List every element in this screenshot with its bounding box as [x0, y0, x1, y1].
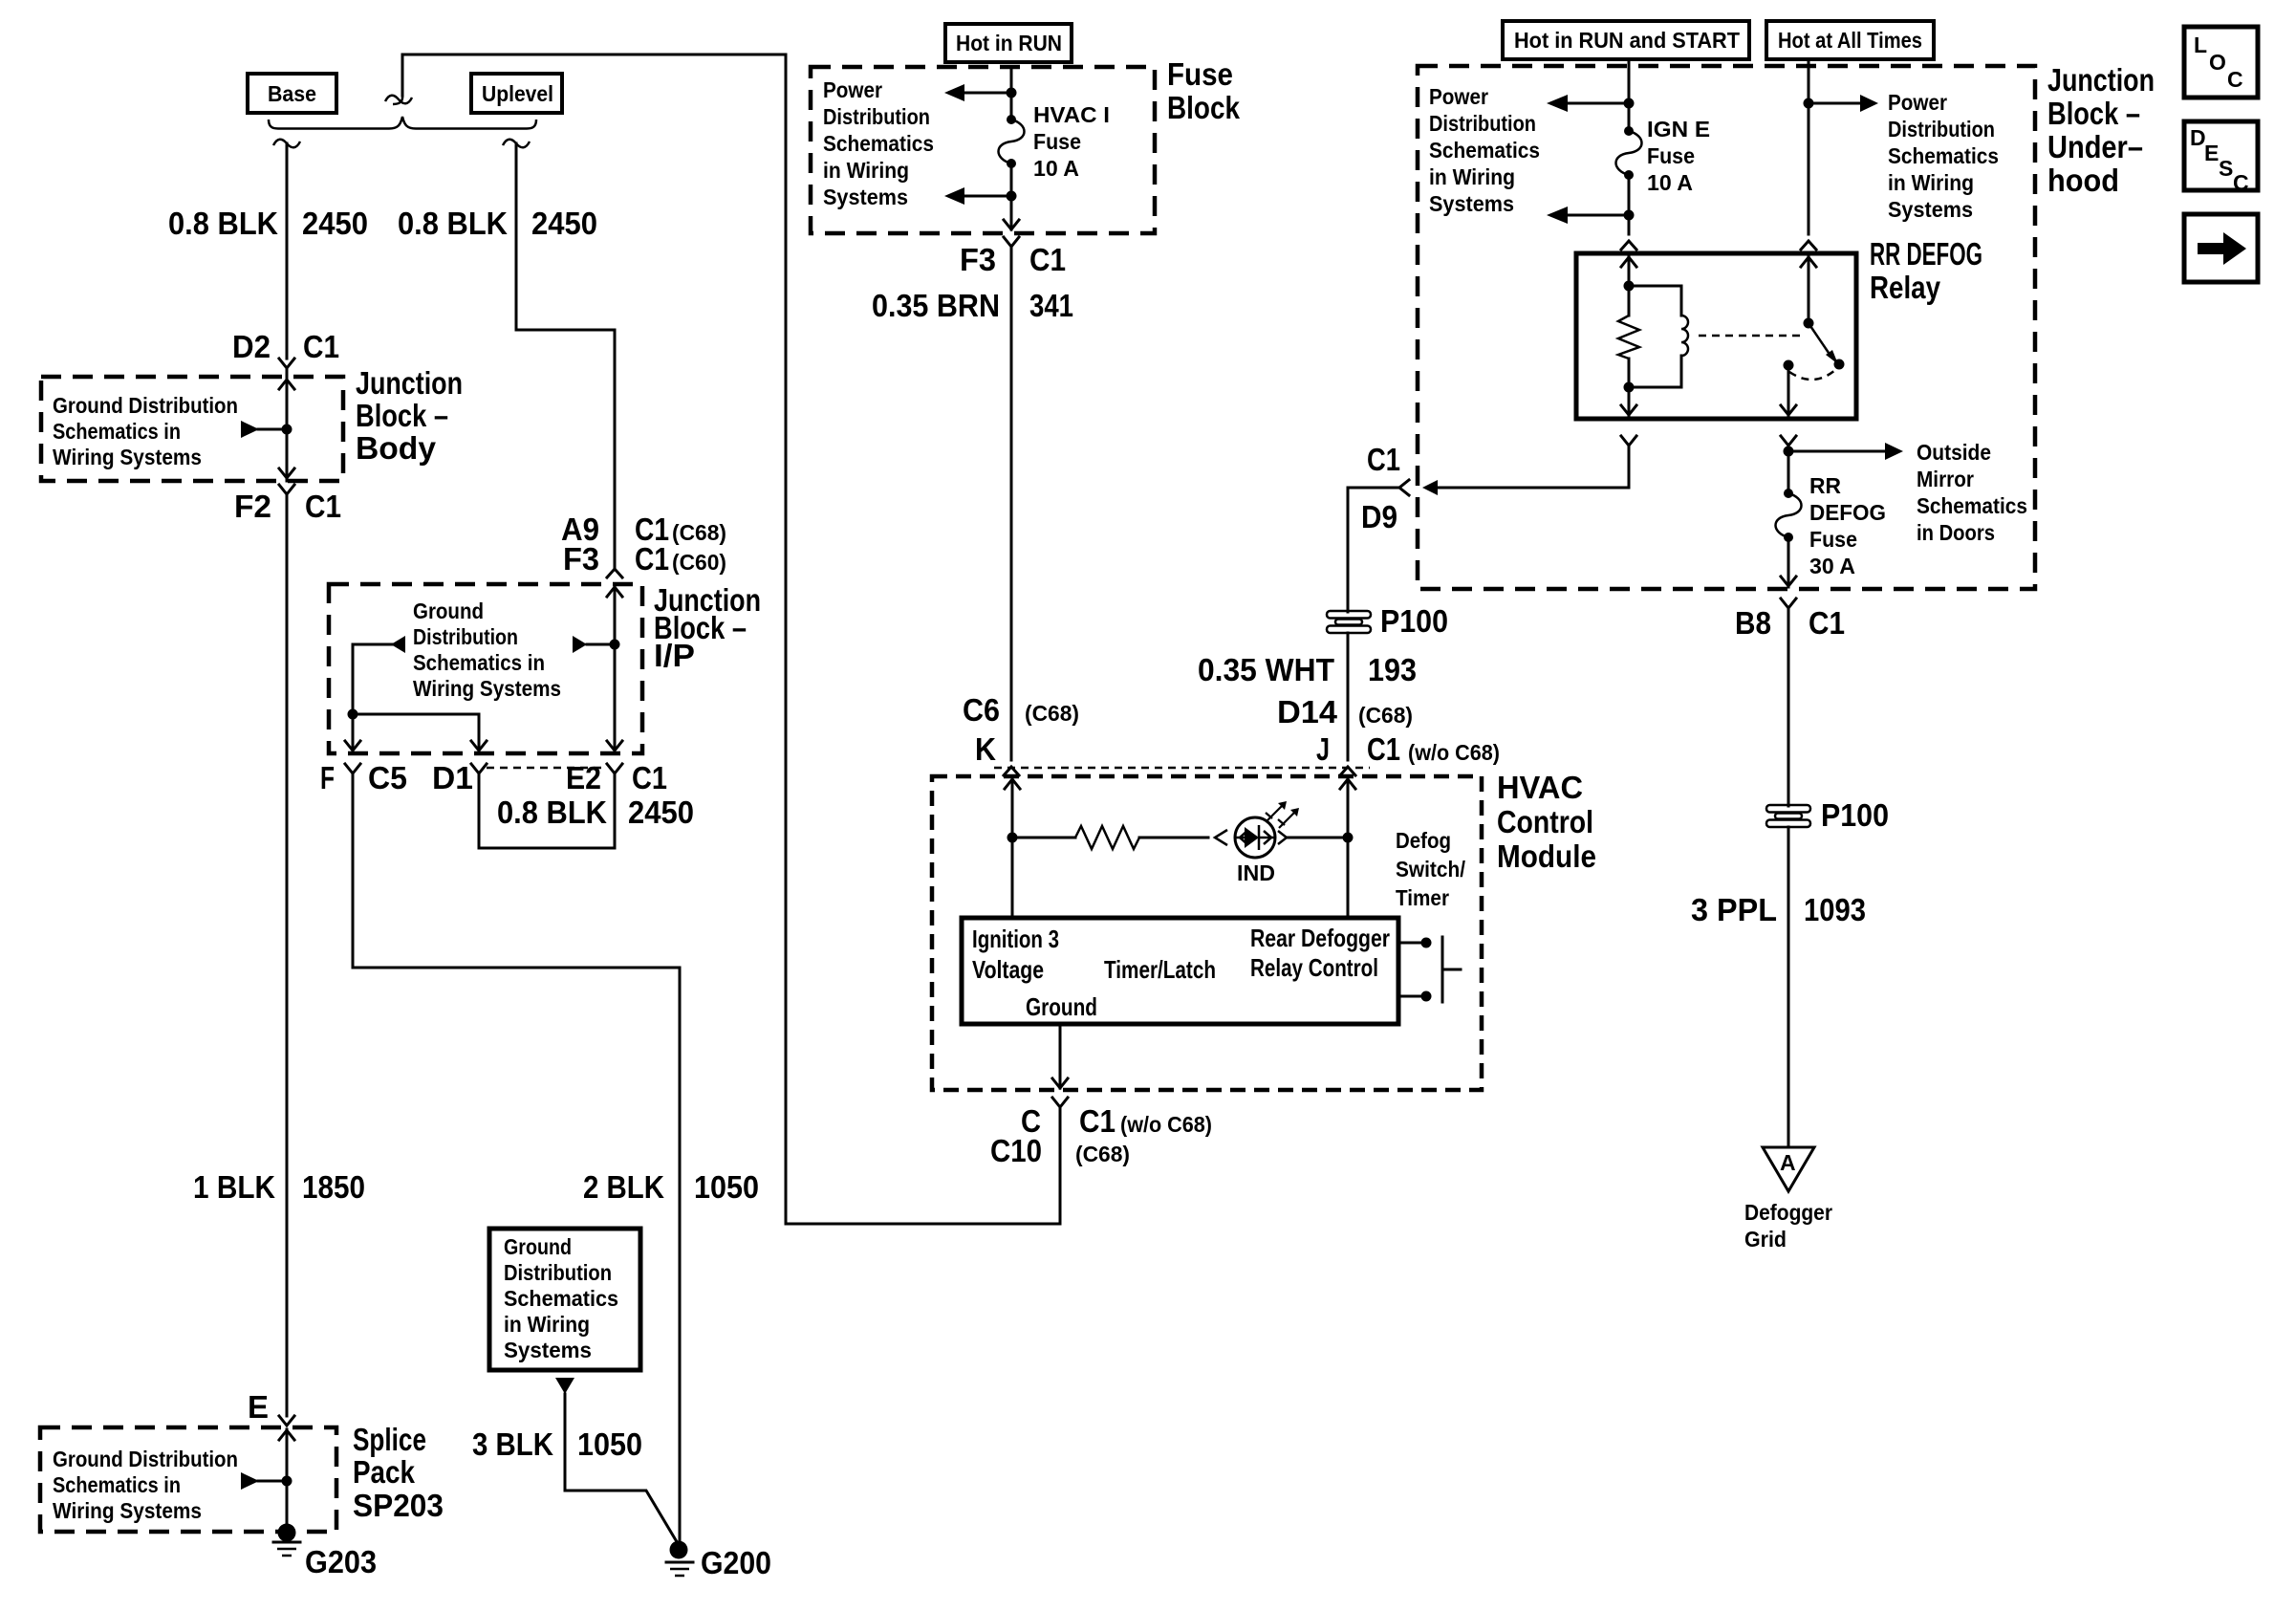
connector chevron A9/F3	[607, 569, 622, 577]
svg-text:341: 341	[1029, 288, 1073, 323]
LOC legend box	[2184, 27, 2258, 98]
svg-text:Wiring Systems: Wiring Systems	[53, 445, 202, 469]
svg-text:Block: Block	[1167, 90, 1241, 125]
svg-text:Timer/Latch: Timer/Latch	[1104, 955, 1216, 984]
wire-break squiggle on ground return drop	[385, 96, 412, 104]
wire: 2 BLK 1050 from F/C5 to G200	[353, 773, 680, 1543]
resistor (indicator series)	[1012, 826, 1208, 849]
thin dashed connector line E2-C1	[487, 767, 607, 770]
text outside mirror schematics	[1917, 440, 2027, 545]
connector F3 / C1 labels	[960, 242, 1066, 277]
text ground distribution (splice pack)	[53, 1447, 238, 1523]
svg-text:Systems: Systems	[504, 1338, 592, 1362]
inner box labels	[972, 924, 1390, 1021]
svg-text:Rear Defogger: Rear Defogger	[1250, 924, 1390, 952]
off-page arrow left (IGN E bottom)	[1547, 207, 1629, 224]
svg-text:Ground Distribution: Ground Distribution	[53, 1447, 238, 1471]
svg-text:C1: C1	[303, 329, 339, 364]
grommet P100 (right)	[1766, 797, 1889, 833]
wire-break squiggle, Uplevel drop	[503, 140, 530, 148]
male arrow at C1/D9	[1422, 480, 1438, 495]
svg-text:Hot at All Times: Hot at All Times	[1778, 28, 1922, 53]
I/P block left branch wires	[353, 644, 479, 753]
svg-text:Ground: Ground	[504, 1234, 572, 1259]
svg-text:Hot in RUN: Hot in RUN	[956, 31, 1062, 55]
node: outside mirror branch dot	[1784, 446, 1794, 457]
svg-text:(C68): (C68)	[1358, 703, 1413, 728]
off-page arrow right (I/P block)	[573, 636, 615, 653]
svg-text:Distribution: Distribution	[1888, 117, 1995, 142]
svg-text:2 BLK: 2 BLK	[583, 1169, 664, 1205]
wire from LED to J branch	[1288, 837, 1348, 839]
svg-text:10 A: 10 A	[1033, 156, 1079, 181]
HVAC control module dashed box	[932, 776, 1482, 1090]
wire: 0.35 WHT to P100 and J	[1348, 488, 1399, 760]
svg-text:Schematics: Schematics	[504, 1286, 618, 1311]
off-page triangle below middle box	[555, 1378, 574, 1394]
svg-text:2450: 2450	[531, 206, 597, 241]
text ground distribution (I/P block)	[413, 599, 561, 701]
ground G203	[273, 1524, 377, 1580]
svg-text:0.8 BLK: 0.8 BLK	[398, 206, 508, 241]
svg-text:Distribution: Distribution	[823, 104, 930, 129]
svg-text:Voltage: Voltage	[972, 955, 1044, 984]
svg-text:F: F	[320, 760, 335, 795]
arrow down inside relay (coil out)	[1621, 387, 1636, 417]
ground distribution solid box (middle)	[489, 1229, 640, 1370]
svg-text:P100: P100	[1821, 797, 1889, 833]
arrow up inside relay (switch)	[1801, 256, 1816, 323]
svg-text:Distribution: Distribution	[1429, 111, 1536, 136]
connector C / C1 / C10 labels	[990, 1103, 1212, 1168]
svg-text:in Wiring: in Wiring	[823, 158, 909, 183]
wire: 3 BLK 1050 to G200	[565, 1394, 679, 1545]
svg-text:Power: Power	[1429, 84, 1488, 109]
node: lower dot	[1007, 191, 1017, 202]
arrows down out of I/P block	[345, 741, 622, 751]
svg-text:Relay Control: Relay Control	[1250, 953, 1378, 982]
svg-text:D9: D9	[1361, 499, 1397, 534]
svg-text:I/P: I/P	[654, 638, 695, 673]
text ground distribution (body block)	[53, 393, 238, 469]
label 0.35 BRN 341	[872, 288, 1073, 323]
female chevron at C1/D9	[1399, 480, 1409, 495]
label Junction Block - Body	[356, 365, 463, 466]
connector J / C1 (w/o C68) labels	[1316, 731, 1500, 767]
connector chevron into relay (switch side)	[1801, 241, 1816, 250]
arrow down out of fuse block	[1004, 220, 1019, 229]
svg-text:(w/o C68): (w/o C68)	[1120, 1112, 1212, 1137]
relay coil	[1629, 286, 1688, 387]
svg-text:E2: E2	[566, 760, 601, 795]
svg-text:C10: C10	[990, 1133, 1042, 1168]
svg-text:F2: F2	[234, 489, 271, 524]
off-page arrow right (battery feed)	[1809, 95, 1878, 112]
Uplevel option box	[471, 74, 562, 113]
label Defog Switch/Timer	[1396, 828, 1466, 910]
defog switch button	[1442, 937, 1461, 1002]
svg-text:Power: Power	[1888, 90, 1947, 115]
svg-text:Ground Distribution: Ground Distribution	[53, 393, 238, 418]
svg-text:Fuse: Fuse	[1809, 527, 1857, 552]
svg-text:Defogger: Defogger	[1744, 1200, 1832, 1225]
svg-text:Fuse: Fuse	[1033, 129, 1081, 154]
svg-text:1093: 1093	[1804, 892, 1866, 927]
wire: module ground to return run	[1059, 1107, 1062, 1224]
svg-text:30 A: 30 A	[1809, 554, 1855, 578]
svg-text:J: J	[1316, 731, 1330, 767]
svg-text:C1: C1	[632, 760, 667, 795]
connector E label	[248, 1389, 269, 1425]
connector chevron below relay (coil)	[1621, 436, 1636, 446]
connector chevron into relay (coil side)	[1621, 241, 1636, 250]
wire below IGN E fuse	[1628, 175, 1631, 234]
relay contacts	[1784, 359, 1845, 371]
svg-text:Splice: Splice	[353, 1422, 426, 1457]
label 2 BLK 1050	[583, 1169, 759, 1205]
connector chevron J	[1340, 767, 1355, 775]
connector chevron right of LED	[1278, 831, 1287, 844]
connector F2 / C1 labels	[234, 489, 341, 524]
svg-text:E: E	[248, 1389, 269, 1425]
node: coil top dot	[1624, 281, 1635, 292]
module inner solid box	[962, 918, 1398, 1024]
label RR DEFOG Relay	[1870, 236, 1982, 305]
svg-text:Schematics: Schematics	[1917, 493, 2027, 518]
label Fuse Block	[1167, 56, 1241, 125]
svg-text:3 PPL: 3 PPL	[1691, 892, 1777, 927]
Hot in RUN and START box	[1503, 21, 1749, 59]
connector chevrons below I/P block	[345, 764, 622, 773]
thin dashed connector line C68	[994, 767, 1370, 770]
node: J branch dot	[1343, 833, 1354, 843]
connector chevron F3/C1	[1004, 237, 1019, 247]
svg-text:1 BLK: 1 BLK	[193, 1169, 275, 1205]
svg-text:in Wiring: in Wiring	[504, 1312, 590, 1337]
svg-text:DEFOG: DEFOG	[1809, 500, 1886, 525]
svg-text:Switch/: Switch/	[1396, 857, 1466, 882]
svg-text:(w/o C68): (w/o C68)	[1408, 740, 1500, 765]
svg-text:Systems: Systems	[1888, 197, 1973, 222]
svg-text:D1: D1	[432, 760, 473, 795]
svg-text:1850: 1850	[302, 1169, 365, 1205]
svg-text:Control: Control	[1497, 804, 1593, 839]
wire: Uplevel ground drop 0.8 BLK 2450	[516, 143, 615, 570]
svg-text:Defog: Defog	[1396, 828, 1451, 853]
svg-text:C1: C1	[305, 489, 341, 524]
wire: Hot at All Times feed	[1808, 59, 1810, 234]
svg-text:C: C	[2233, 170, 2249, 195]
svg-text:C1: C1	[1367, 442, 1400, 477]
svg-text:RR DEFOG: RR DEFOG	[1870, 236, 1982, 272]
svg-text:Fuse: Fuse	[1167, 56, 1233, 92]
svg-text:2450: 2450	[302, 206, 368, 241]
label 0.8 BLK 2450 (Base)	[168, 206, 368, 241]
ground G200	[666, 1541, 771, 1581]
svg-text:C1: C1	[635, 541, 669, 577]
svg-text:Base: Base	[268, 81, 316, 106]
wire: relay coil control to D9	[1436, 446, 1629, 488]
node: coil bottom dot	[1624, 382, 1635, 393]
label 0.8 BLK 2450 (Uplevel)	[398, 206, 597, 241]
svg-text:Wiring Systems: Wiring Systems	[413, 676, 561, 701]
node: IGN E lower dot	[1624, 210, 1635, 221]
svg-text:in Doors: in Doors	[1917, 520, 1995, 545]
svg-text:1050: 1050	[694, 1169, 759, 1205]
text power distribution (underhood left)	[1429, 84, 1540, 216]
svg-text:Fuse: Fuse	[1647, 143, 1695, 168]
svg-text:F3: F3	[563, 541, 599, 577]
arrow up into module (J)	[1340, 778, 1355, 918]
relay resistor	[1618, 286, 1639, 387]
connector chevron K	[1004, 767, 1019, 775]
connector chevron F2/C1	[279, 485, 294, 494]
svg-text:Power: Power	[823, 77, 882, 102]
wire: Base ground drop 0.8 BLK 2450	[286, 143, 289, 359]
svg-text:RR: RR	[1809, 473, 1841, 498]
arrow down inside relay (switch out)	[1781, 365, 1796, 417]
junction block body dashed box	[41, 377, 343, 481]
off-page arrow left (fuse block top)	[944, 84, 1011, 101]
svg-text:Ground: Ground	[413, 599, 484, 623]
node: I/P block right dot	[610, 640, 620, 650]
node: feed dot	[1007, 88, 1017, 98]
svg-text:F3: F3	[960, 242, 996, 277]
label 0.35 WHT 193	[1198, 652, 1417, 687]
label 1 BLK 1850	[193, 1169, 365, 1205]
label Defogger Grid	[1744, 1200, 1832, 1252]
wire-break squiggle, Base drop	[273, 140, 300, 148]
svg-text:0.8 BLK: 0.8 BLK	[497, 795, 607, 830]
wire: relay switch output	[1787, 446, 1790, 493]
fuse block dashed box	[811, 67, 1155, 233]
node: I/P block left dot	[348, 709, 358, 720]
arrow down out of body block	[279, 468, 294, 478]
svg-text:SP203: SP203	[353, 1488, 444, 1523]
wire: 1 BLK 1850 down to splice pack	[286, 494, 289, 1416]
fuse RR DEFOG 30 A	[1776, 473, 1887, 578]
svg-text:Distribution: Distribution	[504, 1260, 612, 1285]
connector chevron E	[279, 1416, 294, 1426]
connector chevron B8/C1	[1781, 599, 1796, 608]
svg-text:Pack: Pack	[353, 1454, 416, 1490]
svg-text:(C60): (C60)	[672, 550, 726, 575]
svg-text:C6: C6	[963, 692, 1000, 728]
node: body block splice dot	[282, 425, 292, 435]
svg-text:Systems: Systems	[823, 185, 908, 209]
label 3 PPL 1093	[1691, 892, 1866, 927]
label Junction Block - Under-hood	[2047, 62, 2155, 198]
defogger grid terminal triangle A	[1763, 1147, 1814, 1191]
svg-text:in Wiring: in Wiring	[1888, 170, 1974, 195]
svg-text:Junction: Junction	[356, 365, 463, 401]
connector B8 / C1 labels	[1735, 605, 1845, 641]
off-page arrow left (I/P block)	[353, 636, 405, 653]
svg-text:HVAC I: HVAC I	[1033, 102, 1110, 127]
svg-text:C5: C5	[368, 760, 407, 795]
arrow up into splice pack	[279, 1429, 294, 1533]
svg-text:C1: C1	[1029, 242, 1066, 277]
brace joining Base and Uplevel grounds	[269, 117, 536, 129]
defog switch stubs	[1398, 938, 1432, 1002]
wire: 0.8 BLK 2450 jumper D1 to C1	[479, 773, 615, 848]
text power distribution (fuse block)	[823, 77, 934, 209]
Base option box	[248, 74, 336, 113]
svg-text:Uplevel: Uplevel	[482, 81, 553, 106]
wire: defogger feed to P100	[1787, 608, 1790, 1147]
svg-text:Schematics in: Schematics in	[413, 650, 545, 675]
svg-text:Wiring Systems: Wiring Systems	[53, 1498, 202, 1523]
arrow legend box	[2184, 214, 2258, 282]
svg-text:0.35 WHT: 0.35 WHT	[1198, 652, 1334, 687]
junction block I/P dashed box	[329, 584, 642, 753]
svg-text:K: K	[975, 731, 996, 767]
off-page arrow right (outside mirror)	[1788, 443, 1903, 460]
arrow up into body block	[279, 379, 294, 481]
svg-text:(C68): (C68)	[672, 520, 726, 545]
svg-text:Block –: Block –	[356, 398, 448, 433]
svg-text:10 A: 10 A	[1647, 170, 1693, 195]
label 3 BLK 1050	[472, 1426, 642, 1462]
label 0.8 BLK 2450 (jumper)	[497, 795, 694, 830]
svg-text:HVAC: HVAC	[1497, 770, 1583, 805]
fuse IGN E 10 A	[1616, 117, 1711, 195]
label HVAC Control Module	[1497, 770, 1596, 874]
connector chevron C/C10	[1052, 1098, 1068, 1107]
splice pack SP203 dashed box	[40, 1427, 336, 1532]
connector C1 / D9 labels	[1361, 442, 1400, 534]
svg-text:Schematics in: Schematics in	[53, 419, 181, 444]
arrow up inside relay (coil)	[1621, 256, 1636, 286]
svg-text:Relay: Relay	[1870, 270, 1941, 305]
svg-text:0.35 BRN: 0.35 BRN	[872, 288, 1000, 323]
LED indicator IND	[1235, 801, 1299, 885]
svg-text:Grid: Grid	[1744, 1227, 1787, 1252]
svg-text:O: O	[2209, 50, 2226, 75]
svg-text:(C68): (C68)	[1075, 1142, 1130, 1166]
svg-text:Hot in RUN and START: Hot in RUN and START	[1514, 28, 1740, 53]
node: splice pack dot	[282, 1476, 292, 1487]
svg-text:C1: C1	[1367, 731, 1400, 767]
svg-text:Systems: Systems	[1429, 191, 1514, 216]
off-page arrow left (IGN E top)	[1547, 95, 1629, 112]
svg-text:hood: hood	[2047, 163, 2119, 198]
DESC legend box	[2184, 121, 2258, 195]
svg-text:Module: Module	[1497, 838, 1596, 874]
connector C6 (C68) / K labels	[963, 692, 1079, 767]
connector D14 (C68) labels	[1277, 694, 1413, 729]
text power distribution (underhood right)	[1888, 90, 1999, 222]
node: K branch dot	[1007, 833, 1018, 843]
arrow up into I/P block	[607, 586, 622, 753]
dashed actuation link	[1699, 335, 1802, 337]
wire: ground return from HVAC module top run	[402, 54, 1060, 1224]
connector chevron left of LED	[1215, 830, 1227, 845]
svg-text:3 BLK: 3 BLK	[472, 1426, 553, 1462]
wire: IGN E feed	[1628, 59, 1631, 131]
svg-text:IGN E: IGN E	[1647, 117, 1710, 142]
svg-text:Body: Body	[356, 430, 437, 466]
grommet P100 (left)	[1327, 603, 1448, 639]
svg-text:Schematics: Schematics	[1888, 143, 1999, 168]
svg-text:P100: P100	[1380, 603, 1448, 639]
node: battery feed dot	[1804, 98, 1814, 109]
svg-text:193: 193	[1368, 652, 1417, 687]
node: switch common dot	[1804, 318, 1814, 329]
svg-text:Junction: Junction	[2047, 62, 2155, 98]
svg-text:Schematics: Schematics	[823, 131, 934, 156]
svg-text:C1: C1	[1079, 1103, 1116, 1139]
svg-text:E: E	[2204, 141, 2219, 165]
svg-text:0.8 BLK: 0.8 BLK	[168, 206, 278, 241]
svg-text:G200: G200	[701, 1545, 771, 1580]
label Splice Pack SP203	[353, 1422, 444, 1523]
connector labels F C5 D1 E2 C1	[320, 760, 667, 795]
ground pin wire with arrow down	[1052, 1024, 1068, 1088]
wire: 0.35 BRN 341 down to HVAC module	[1010, 247, 1013, 760]
wire below fuse	[1010, 163, 1013, 229]
off-page arrow left (fuse block bottom)	[944, 187, 1011, 205]
svg-text:C: C	[2227, 67, 2243, 92]
connector D2 / C1 labels	[232, 329, 339, 364]
Hot in RUN box	[945, 24, 1072, 62]
svg-text:Schematics in: Schematics in	[53, 1472, 181, 1497]
svg-text:D2: D2	[232, 329, 271, 364]
label Junction Block - I/P	[654, 582, 761, 673]
connector chevron below relay (switch)	[1781, 436, 1796, 446]
svg-text:G203: G203	[305, 1544, 377, 1579]
svg-text:A: A	[1780, 1150, 1796, 1175]
arrow up into module (K)	[1005, 778, 1020, 918]
svg-text:S: S	[2219, 156, 2233, 181]
svg-text:C1: C1	[1809, 605, 1845, 641]
svg-text:Schematics: Schematics	[1429, 138, 1540, 163]
svg-text:D14: D14	[1277, 694, 1338, 729]
svg-text:L: L	[2194, 33, 2207, 57]
svg-text:Block –: Block –	[2047, 96, 2140, 131]
off-page arrow in splice pack	[241, 1472, 287, 1490]
relay switch blade	[1809, 323, 1838, 364]
relay RR DEFOG box	[1576, 253, 1856, 419]
svg-text:in Wiring: in Wiring	[1429, 164, 1515, 189]
arrow down out of underhood block	[1781, 537, 1796, 587]
off-page arrow in body block	[241, 421, 287, 438]
svg-text:(C68): (C68)	[1025, 701, 1079, 726]
svg-text:Ignition 3: Ignition 3	[972, 925, 1059, 953]
svg-text:Outside: Outside	[1917, 440, 1991, 465]
svg-text:Under–: Under–	[2047, 129, 2143, 164]
junction block underhood dashed box	[1418, 66, 2035, 589]
svg-text:Timer: Timer	[1396, 885, 1449, 910]
wire: hot feed into fuse block	[1010, 67, 1013, 120]
connector A9/F3 C1 labels	[561, 512, 726, 577]
svg-text:Ground: Ground	[1026, 992, 1097, 1021]
connector chevron D2/C1	[279, 359, 294, 377]
svg-text:B8: B8	[1735, 605, 1771, 641]
svg-text:2450: 2450	[628, 795, 694, 830]
svg-text:Mirror: Mirror	[1917, 467, 1974, 491]
svg-text:Distribution: Distribution	[413, 624, 518, 649]
node: IGN E feed dot	[1624, 98, 1635, 109]
svg-text:IND: IND	[1237, 860, 1275, 885]
dashed throw arc	[1789, 370, 1835, 380]
Hot at All Times box	[1766, 21, 1934, 59]
svg-text:1050: 1050	[577, 1426, 642, 1462]
fuse HVAC I 10 A	[999, 102, 1111, 181]
